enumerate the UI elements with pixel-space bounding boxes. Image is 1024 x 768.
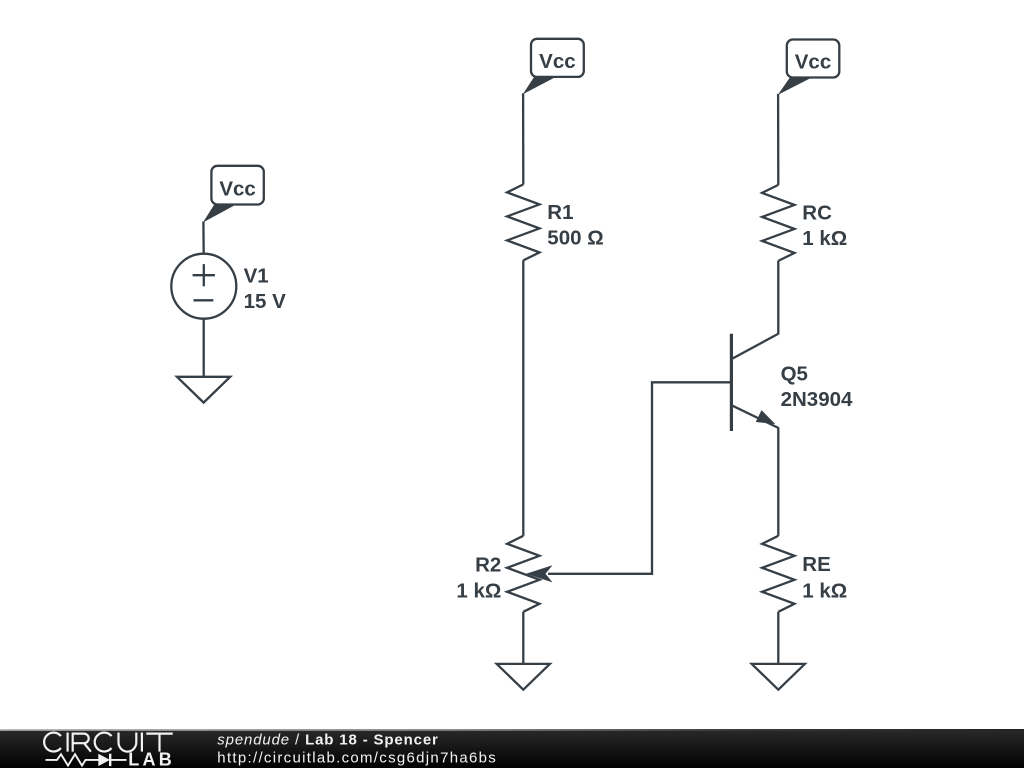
wire RE to ground (777, 612, 779, 664)
svg-text:R2: R2 (475, 554, 501, 577)
label R2 1 kΩ (456, 554, 501, 603)
resistor RC (762, 185, 794, 261)
svg-text:500 Ω: 500 Ω (547, 227, 603, 250)
wire Vcc flag to RC (777, 94, 780, 185)
voltage source V1 (171, 254, 236, 319)
label V1 15 V (244, 264, 286, 313)
svg-text:1 kΩ: 1 kΩ (456, 579, 501, 602)
svg-text:V1: V1 (244, 264, 269, 287)
wire R2 wiper to Q5 base (548, 382, 732, 574)
label R1 500 Ω (547, 201, 603, 250)
ground (V1) (177, 377, 230, 403)
svg-text:Vcc: Vcc (219, 177, 255, 200)
wire Vcc flag to R1 (522, 93, 525, 184)
svg-text:2N3904: 2N3904 (781, 388, 853, 411)
svg-text:RC: RC (802, 202, 832, 225)
resistor RE (762, 536, 794, 612)
net flag Vcc (V1 supply) (203, 166, 264, 223)
net flag Vcc (R1 top) (523, 39, 584, 94)
ground (RE) (752, 664, 805, 690)
svg-text:15 V: 15 V (244, 290, 286, 313)
svg-text:R1: R1 (547, 201, 573, 224)
svg-text:Q5: Q5 (781, 362, 808, 385)
net flag Vcc (RC top) (778, 40, 840, 95)
wire V1 - to ground (203, 318, 205, 377)
CircuitLab logo CIRCUIT (44, 733, 173, 752)
svg-text:1 kΩ: 1 kΩ (802, 579, 847, 602)
svg-text:RE: RE (802, 553, 830, 576)
ground (R2) (497, 664, 550, 690)
wire Q5 emitter to RE (777, 427, 779, 536)
resistor R1 (507, 184, 539, 260)
wire R2 to ground (522, 612, 524, 664)
svg-text:Vcc: Vcc (795, 51, 831, 74)
svg-text:spendude / Lab 18 - Spencer: spendude / Lab 18 - Spencer (217, 732, 438, 749)
footer bar (0, 729, 1024, 768)
wire RC to Q5 collector (777, 261, 779, 335)
svg-text:http://circuitlab.com/csg6djn7: http://circuitlab.com/csg6djn7ha6bs (217, 750, 497, 767)
svg-text:1 kΩ: 1 kΩ (802, 227, 847, 250)
svg-text:LAB: LAB (128, 750, 175, 768)
wire R1 to R2 (522, 260, 524, 536)
label RC 1 kΩ (802, 202, 847, 251)
transistor Q5 (731, 334, 778, 431)
label Q5 2N3904 (781, 362, 853, 411)
CircuitLab logo resistor-diode (46, 754, 127, 766)
wire Vcc flag to V1 + (202, 222, 205, 255)
svg-text:Vcc: Vcc (539, 50, 575, 73)
label RE 1 kΩ (802, 553, 847, 602)
potentiometer R2 (507, 536, 552, 612)
